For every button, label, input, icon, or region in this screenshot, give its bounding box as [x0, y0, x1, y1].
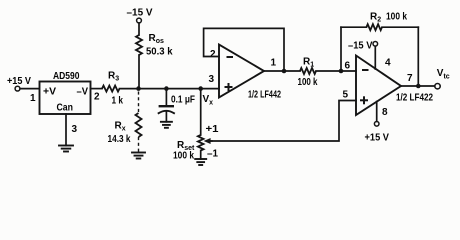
svg-text:R2: R2: [370, 12, 381, 24]
pin 7 label: [407, 73, 413, 84]
label R2 value 100 k: [386, 12, 407, 23]
wire node Vx down to Rset: [200, 89, 202, 135]
svg-text:6: 6: [345, 61, 351, 72]
-15 V supply terminal (top): [127, 8, 153, 23]
label R2: [370, 12, 381, 24]
svg-text:7: 7: [407, 73, 413, 84]
wire Rset wiper to op-amp A2 pin5: [211, 101, 356, 142]
node Vx junction: [198, 86, 203, 91]
label R1: [303, 57, 314, 69]
svg-text:100 k: 100 k: [298, 77, 318, 88]
svg-text:4: 4: [385, 58, 391, 69]
label R3: [108, 71, 119, 83]
wire node Vx to op-amp pin3: [201, 88, 219, 90]
svg-text:14.3 k: 14.3 k: [108, 134, 131, 145]
label Ros value 50.3 k: [146, 47, 173, 58]
output terminal Vtc: [435, 68, 450, 89]
svg-text:R3: R3: [108, 71, 119, 83]
pin 6 label: [345, 61, 351, 72]
svg-text:1/2 LF422: 1/2 LF422: [396, 93, 433, 104]
resistor R3: [102, 86, 120, 92]
wire Rx to ground (dashed): [138, 137, 140, 153]
pin 2 label: [94, 92, 100, 103]
svg-text:+15 V: +15 V: [7, 76, 31, 87]
resistor Ros: [136, 35, 142, 55]
ground (Rx): [132, 153, 145, 159]
svg-text:5: 5: [343, 90, 349, 101]
ground (Rset): [195, 159, 206, 165]
svg-text:+V: +V: [43, 87, 56, 98]
label +1: [206, 124, 219, 135]
capacitor C1: [159, 106, 174, 113]
label R1 value 100 k: [298, 77, 318, 88]
ground (capacitor): [161, 122, 172, 128]
svg-text:+15 V: +15 V: [365, 133, 390, 144]
-15 V supply terminal (pin 4): [348, 41, 378, 52]
wire -15V to pin 4: [374, 46, 376, 69]
pin 1 label: [271, 58, 277, 69]
svg-text:Ros: Ros: [149, 33, 165, 45]
svg-text:Vx: Vx: [203, 94, 214, 107]
+15 V input terminal: [7, 76, 31, 91]
label 1/2 LF422: [396, 93, 433, 104]
wire R2 down to output node: [417, 27, 419, 86]
wire capacitor to ground: [165, 112, 167, 122]
wire node to capacitor: [165, 89, 167, 106]
+15 V supply terminal (pin 8): [365, 122, 390, 144]
pin 8 label: [382, 107, 388, 118]
pin 1 label: [30, 93, 36, 104]
label -1: [207, 149, 218, 160]
wire A1 output: [264, 70, 284, 72]
svg-text:–1: –1: [207, 149, 218, 160]
wire cap node to node Vx: [166, 88, 200, 90]
op-amp U2a 1/2 LF442: [219, 45, 264, 98]
wire node B to op-amp A2 pin6: [341, 70, 356, 72]
svg-text:50.3 k: 50.3 k: [146, 47, 173, 58]
svg-text:R1: R1: [303, 57, 314, 69]
svg-text:Rx: Rx: [115, 121, 126, 133]
label 1/2 LF442: [248, 90, 281, 101]
wire Ros to node A: [138, 55, 140, 89]
svg-text:2: 2: [210, 49, 216, 60]
wire -15V terminal to Ros: [138, 23, 140, 35]
svg-text:100 k: 100 k: [386, 12, 407, 23]
pin 5 label: [343, 90, 349, 101]
junction (capacitor tap): [164, 86, 169, 91]
label R3 value 1 k: [112, 96, 124, 107]
svg-text:–15 V: –15 V: [348, 41, 373, 52]
wire R3 to node A: [120, 88, 139, 90]
junction (A1 output/feedback): [282, 69, 287, 74]
svg-text:8: 8: [382, 107, 388, 118]
svg-text:1: 1: [30, 93, 36, 104]
wire Rset to ground: [200, 151, 202, 160]
svg-text:2: 2: [94, 92, 100, 103]
pin 4 label: [385, 58, 391, 69]
ground (AD590 pin 3): [59, 146, 73, 152]
resistor R2: [366, 24, 382, 30]
sensor U1 AD590: [40, 71, 91, 114]
resistor R1: [300, 68, 316, 74]
wire R2 right segment: [382, 26, 418, 28]
wire node A to cap node: [139, 88, 167, 90]
label Rset value 100 k: [173, 151, 194, 162]
svg-text:3: 3: [209, 74, 215, 85]
resistor Rx: [136, 113, 142, 137]
Rset wiper arrow: [204, 138, 212, 144]
wire A2 output: [401, 85, 435, 87]
svg-text:AD590: AD590: [53, 71, 80, 82]
svg-text:1: 1: [271, 58, 277, 69]
label Rx value 14.3 k: [108, 134, 131, 145]
wire terminal to AD590 pin1: [20, 88, 39, 90]
svg-text:–V: –V: [77, 87, 89, 98]
node B junction: [339, 69, 344, 74]
svg-text:0.1 μF: 0.1 μF: [171, 95, 195, 106]
pin 3 label: [209, 74, 215, 85]
svg-text:1 k: 1 k: [112, 96, 124, 107]
svg-text:+1: +1: [206, 124, 219, 135]
wire pin 8 to +15V: [376, 102, 378, 122]
label Rset: [177, 140, 195, 152]
op-amp U2b 1/2 LF422: [356, 56, 401, 116]
label 0.1 uF: [171, 95, 195, 106]
svg-text:3: 3: [72, 124, 78, 135]
pin 2 label: [210, 49, 216, 60]
svg-text:Can: Can: [57, 103, 74, 114]
label Ros: [149, 33, 165, 45]
svg-text:Vtc: Vtc: [437, 68, 450, 81]
wire node B up to R2: [340, 27, 342, 71]
svg-text:100 k: 100 k: [173, 151, 194, 162]
pin 3 label: [72, 124, 78, 135]
svg-text:–15 V: –15 V: [127, 8, 153, 19]
wire A1 feedback loop: [204, 28, 284, 71]
label node Vx: [203, 94, 214, 107]
wire AD590 pin2 to R3: [91, 88, 103, 90]
wire R2 left segment: [341, 26, 366, 28]
potentiometer Rset: [198, 135, 204, 151]
wire R1 to node B: [316, 70, 341, 72]
svg-text:1/2 LF442: 1/2 LF442: [248, 90, 281, 101]
junction (output/R2): [416, 84, 421, 89]
wire AD590 pin3 down: [65, 114, 67, 146]
wire node A to Rx (dashed): [138, 92, 140, 114]
label Rx: [115, 121, 126, 133]
wire A1 output to R1: [284, 70, 300, 72]
node A junction: [136, 86, 141, 91]
